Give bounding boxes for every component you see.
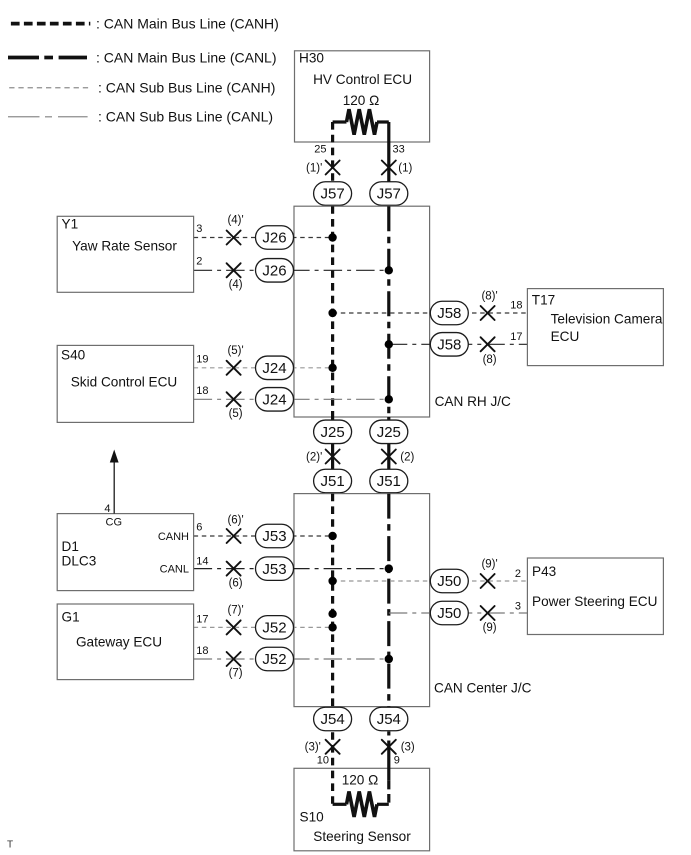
connector X (6) on D1 CANL [227,562,241,576]
svg-text:: CAN Main Bus Line (CANH): : CAN Main Bus Line (CANH) [96,16,279,32]
svg-text:J51: J51 [377,473,401,490]
junction connector J25 (CANL) [370,420,408,444]
wire left bus to P43 pin2 CANH sub (gray dashed) [333,580,528,582]
connector X (5) on S40 CANL [227,392,241,406]
svg-text:Gateway ECU: Gateway ECU [76,634,162,649]
svg-text:(9)': (9)' [481,559,497,571]
svg-text:Y1: Y1 [62,216,79,231]
svg-text:(1)': (1)' [306,162,322,174]
wire G1 pin18 CANL sub to right bus (gray) [194,658,389,660]
connector X (9)' on P43 CANH [481,574,495,588]
svg-text:J50: J50 [437,605,461,622]
junction connector J50 (CANL) [430,601,468,625]
wire Y1 pin3 CANH to left bus (thin dashed) [194,237,333,239]
svg-text:(5)': (5)' [227,345,243,357]
legend: CAN Main Bus Line (CANH) sample [11,16,279,32]
svg-text:33: 33 [393,144,405,156]
svg-text:J52: J52 [262,651,286,668]
wire right bus to T17 pin17 CANL [389,343,528,345]
legend: CAN Sub Bus Line (CANL) sample [8,109,273,125]
svg-text:CAN RH J/C: CAN RH J/C [435,394,511,409]
connector X (7) on G1 CANL [227,652,241,666]
svg-text:19: 19 [196,353,208,365]
svg-text:17: 17 [196,613,208,625]
svg-text:Steering Sensor: Steering Sensor [313,829,411,844]
svg-text:: CAN Sub Bus Line (CANL): : CAN Sub Bus Line (CANL) [98,109,273,125]
connector X (4)' on Y1 CANH [227,231,241,245]
svg-text:18: 18 [196,385,208,397]
connector X (8) on T17 CANL [481,337,495,351]
connector X (4) on Y1 CANL [227,263,241,277]
svg-text:(7): (7) [229,668,243,680]
junction connector J58 (CANH) [430,301,468,325]
svg-text:J24: J24 [262,360,286,377]
svg-text:J54: J54 [377,711,401,728]
connector X (7)' on G1 CANH [227,620,241,634]
node: CANH junction (J26) [328,233,336,241]
wire CANL from resistor to J57 [387,122,390,206]
node: CANL junction (J52) [385,655,393,663]
wire D1 pin6 CANH to left bus (thin dashed) [194,535,333,537]
connector X (1)' on CANH [326,161,340,175]
svg-text:J26: J26 [262,230,286,247]
node: CANH junction (J52) [328,623,336,631]
svg-text:J51: J51 [321,473,345,490]
svg-text:S10: S10 [300,810,325,825]
svg-text:(6)': (6)' [227,515,243,527]
svg-text:2: 2 [196,256,202,268]
CAN RH J/C box [294,206,430,417]
svg-text:(3)': (3)' [305,742,321,754]
ECU P43 box [527,558,663,635]
connector X (9) on P43 CANL [481,606,495,620]
junction connector J54 (CANH) [314,707,352,731]
svg-text:(4): (4) [229,279,243,291]
svg-text:J54: J54 [321,711,345,728]
ECU Y1 box [57,216,193,292]
wire Y1 pin2 CANL to right bus [194,269,389,271]
svg-text:10: 10 [317,755,329,767]
svg-text:: CAN Main Bus Line (CANL): : CAN Main Bus Line (CANL) [96,49,277,65]
svg-text:CAN Center J/C: CAN Center J/C [434,681,532,696]
wire G1 pin17 CANH sub to left bus (gray dashed) [194,626,333,628]
svg-text:Power Steering ECU: Power Steering ECU [532,594,657,609]
svg-text:J57: J57 [377,186,401,203]
svg-text:J53: J53 [262,528,286,545]
svg-text:(6): (6) [229,577,243,589]
junction connector J52 (CANL) [256,647,294,671]
svg-text:D1: D1 [62,539,79,554]
ECU S40 box [57,345,193,422]
junction connector J52 (CANH) [256,616,294,640]
svg-text:CANL: CANL [160,564,189,576]
connector X (1) on CANL [382,161,396,175]
resistor 120Ω in S10 [333,792,389,817]
wire left bus to T17 pin18 CANH (thin dashed) [333,312,528,314]
wire CANH from resistor to J57 (dashed) [331,122,334,206]
junction connector J51 (CANL) [370,469,408,493]
svg-text:9: 9 [394,755,400,767]
svg-text:P43: P43 [532,564,556,579]
svg-text:6: 6 [196,522,202,534]
junction connector J51 (CANH) [314,469,352,493]
svg-text:(1): (1) [398,162,412,174]
node: CANL junction (J53) [385,564,393,572]
svg-text:CG: CG [106,516,123,528]
svg-text:CANH: CANH [158,531,189,543]
CAN Center J/C box [294,494,430,707]
svg-text:ECU: ECU [551,329,580,344]
svg-text:(3): (3) [401,742,415,754]
connector X (6)' on D1 CANH [227,529,241,543]
svg-text:J26: J26 [262,263,286,280]
node: CANH junction (J53) [328,532,336,540]
svg-text:DLC3: DLC3 [62,554,97,569]
node: CANH junction (J58) [328,309,336,317]
svg-text:H30: H30 [299,51,324,66]
trunk CANL bus in Center J/C [387,494,390,707]
svg-text:120 Ω: 120 Ω [342,772,379,787]
svg-text:Yaw Rate Sensor: Yaw Rate Sensor [72,238,177,253]
connector X (2) on CANL [382,450,396,464]
svg-text:3: 3 [196,223,202,235]
wire D1 pin14 CANL to right bus [194,568,389,570]
legend: CAN Sub Bus Line (CANH) sample [9,80,275,96]
svg-text:J25: J25 [377,424,401,441]
svg-text:T17: T17 [532,292,555,307]
svg-text:17: 17 [510,331,522,343]
junction connector J24 (CANL) [256,388,294,412]
connector X (5)' on S40 CANH [227,361,241,375]
svg-text:J24: J24 [262,392,286,409]
svg-text:Skid Control ECU: Skid Control ECU [71,375,178,390]
resistor 120Ω in H30 [333,109,389,134]
ECU G1 box [57,604,193,680]
wire CANL Center J/C to S10 resistor [387,707,390,730]
node: CANL junction (J24) [385,395,393,403]
svg-text:(5): (5) [229,408,243,420]
junction connector J25 (CANH) [314,420,352,444]
trunk CANL bus in RH J/C [387,206,390,417]
junction connector J57 (CANH) [314,182,352,206]
svg-text:(2)': (2)' [306,451,322,463]
junction connector J50 (CANH) [430,569,468,593]
svg-text:S40: S40 [61,347,86,362]
wire S40 pin18 CANL sub to right bus (gray) [194,398,389,400]
ECU H30 box [295,51,430,142]
junction connector J58 (CANL) [430,333,468,357]
svg-text:(8): (8) [483,354,497,366]
svg-text:G1: G1 [62,609,80,624]
svg-text:J57: J57 [321,186,345,203]
ECU S10 box [294,768,430,851]
svg-text:J50: J50 [437,573,461,590]
svg-text:J52: J52 [262,620,286,637]
node: CANL junction (J26) [385,266,393,274]
svg-text:(9): (9) [483,622,497,634]
junction connector J26 (CANH) [256,226,294,250]
svg-text:(4)': (4)' [227,215,243,227]
svg-text:2: 2 [515,568,521,580]
svg-text:(2): (2) [400,451,414,463]
svg-text:4: 4 [104,503,110,515]
node on CANH bus [328,610,336,618]
wire CANH Center J/C to S10 resistor (dashed) [331,707,334,805]
legend: CAN Main Bus Line (CANL) sample [8,49,277,65]
svg-text:J58: J58 [437,337,461,354]
connector X (2)' on CANH [326,450,340,464]
svg-text:J53: J53 [262,561,286,578]
wire CANH between RH J/C and Center J/C [331,417,334,494]
wire S40 pin19 CANH sub to left bus (gray dashed) [194,367,333,369]
junction connector J26 (CANL) [256,259,294,283]
ECU T17 box [527,289,663,366]
svg-text:HV Control ECU: HV Control ECU [313,72,412,87]
svg-text:18: 18 [196,645,208,657]
wire CG ground arrow from D1 [110,450,119,514]
connector X (8)' on T17 CANH [481,306,495,320]
node: CANL junction (J58) [385,340,393,348]
svg-text:25: 25 [314,144,326,156]
svg-text:T: T [7,840,13,851]
connector X (3) on CANL [382,740,396,754]
svg-text:J58: J58 [437,305,461,322]
svg-text:3: 3 [515,600,521,612]
junction connector J53 (CANL) [256,557,294,581]
trunk CANH bus in Center J/C (dashed) [331,494,334,707]
svg-text:J25: J25 [321,424,345,441]
junction connector J57 (CANL) [370,182,408,206]
junction connector J54 (CANL) [370,707,408,731]
svg-text:14: 14 [196,556,208,568]
wire CANL between RH J/C and Center J/C [387,417,390,494]
svg-text:Television Camera: Television Camera [551,312,663,327]
ECU D1 DLC3 box [57,514,193,591]
svg-text:: CAN Sub Bus Line (CANH): : CAN Sub Bus Line (CANH) [98,80,275,96]
svg-text:18: 18 [510,300,522,312]
svg-text:(7)': (7)' [227,604,243,616]
trunk CANH bus in RH J/C (dashed) [331,206,334,417]
node: CANH junction (J24) [328,364,336,372]
svg-text:(8)': (8)' [481,291,497,303]
connector X (3)' on CANH [326,740,340,754]
junction connector J24 (CANH) [256,356,294,380]
wire right bus to P43 pin3 CANL sub (gray) [389,612,528,614]
junction connector J53 (CANH) [256,524,294,548]
svg-text:120 Ω: 120 Ω [343,93,380,108]
node: CANH junction (J50) [328,577,336,585]
